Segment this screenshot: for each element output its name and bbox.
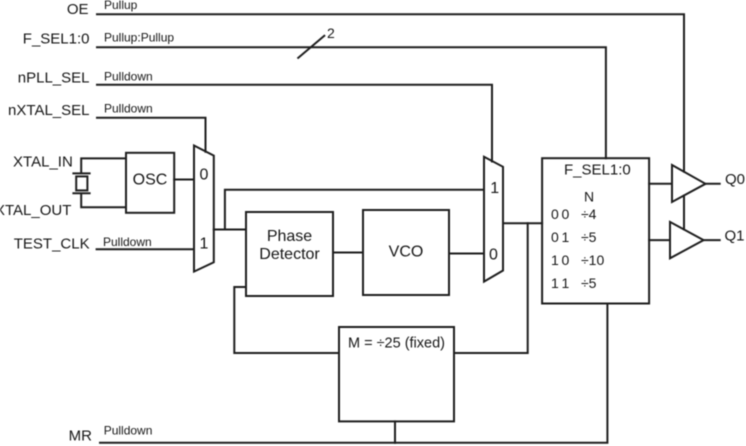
svg-text:F_SEL1:0: F_SEL1:0 bbox=[564, 162, 631, 179]
svg-text:1: 1 bbox=[200, 236, 209, 253]
svg-text:OE: OE bbox=[67, 1, 89, 18]
svg-text:Q0: Q0 bbox=[725, 171, 745, 188]
svg-text:N: N bbox=[584, 189, 594, 205]
svg-text:11÷5: 11÷5 bbox=[551, 275, 597, 291]
svg-text:TEST_CLK: TEST_CLK bbox=[14, 236, 90, 253]
svg-text:Q1: Q1 bbox=[725, 228, 745, 245]
svg-text:Pulldown: Pulldown bbox=[104, 102, 153, 116]
svg-text:Pullup:Pullup: Pullup:Pullup bbox=[104, 31, 174, 45]
svg-text:10÷10: 10÷10 bbox=[551, 252, 604, 268]
svg-text:VCO: VCO bbox=[389, 244, 424, 261]
svg-text:Pullup: Pullup bbox=[104, 0, 138, 12]
svg-text:nXTAL_SEL: nXTAL_SEL bbox=[8, 102, 89, 119]
svg-text:00÷4: 00÷4 bbox=[551, 206, 597, 222]
svg-text:0: 0 bbox=[489, 247, 498, 264]
svg-text:XTAL_IN: XTAL_IN bbox=[13, 153, 73, 170]
svg-text:0: 0 bbox=[200, 167, 209, 184]
svg-text:1: 1 bbox=[490, 180, 499, 197]
svg-text:XTAL_OUT: XTAL_OUT bbox=[0, 202, 71, 219]
svg-text:Pulldown: Pulldown bbox=[103, 235, 152, 249]
svg-text:M = ÷25 (fixed): M = ÷25 (fixed) bbox=[348, 336, 445, 352]
svg-text:Detector: Detector bbox=[259, 246, 320, 263]
svg-text:F_SEL1:0: F_SEL1:0 bbox=[23, 31, 90, 48]
svg-text:2: 2 bbox=[327, 25, 335, 41]
svg-text:nPLL_SEL: nPLL_SEL bbox=[18, 69, 90, 86]
svg-text:Pulldown: Pulldown bbox=[104, 424, 153, 438]
svg-text:Phase: Phase bbox=[267, 228, 312, 245]
svg-text:Pulldown: Pulldown bbox=[104, 69, 153, 83]
svg-text:OSC: OSC bbox=[133, 172, 168, 189]
svg-text:MR: MR bbox=[69, 428, 92, 445]
svg-text:01÷5: 01÷5 bbox=[551, 229, 597, 245]
